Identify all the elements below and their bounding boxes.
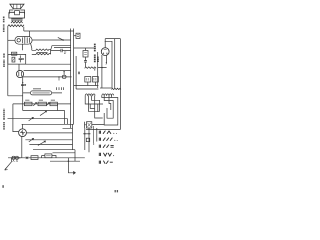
- vertical bus pair: [71, 29, 74, 129]
- wire rung 152.8: [53, 152, 76, 154]
- resistor R1: [32, 49, 51, 51]
- label tube V3 (rotated, dark): [95, 43, 98, 63]
- value text: [64, 52, 66, 53]
- core line: [37, 52, 48, 54]
- inductor L2: [102, 94, 114, 96]
- label V4 (rotated): [3, 109, 5, 130]
- node dot: [68, 160, 70, 162]
- contact mark: [105, 62, 108, 64]
- wire R2 right to cap: [51, 50, 61, 54]
- wire step: [42, 156, 56, 158]
- resistor R9 box: [83, 48, 88, 57]
- resistor R13 box: [50, 102, 57, 106]
- wire row 118.7: [8, 119, 68, 125]
- legend row 2: [99, 138, 117, 141]
- wire T1 left rail down: [8, 27, 23, 96]
- mains plug lead: [5, 158, 12, 170]
- wire V1 top stem: [29, 31, 31, 37]
- switch arrow a: [33, 103, 36, 106]
- arrow head right: [73, 171, 76, 175]
- resistor R8 box: [93, 77, 99, 83]
- wire V4 top stem: [22, 124, 24, 129]
- wire ladder verticals: [73, 124, 76, 161]
- tube V2: [16, 70, 23, 77]
- wire V2 cathode down: [22, 77, 24, 111]
- wire row 110 with switch: [23, 111, 65, 125]
- wire V4 bottom stem: [21, 136, 23, 157]
- wire maze nested loops: [85, 95, 118, 125]
- wire row 149.7: [33, 149, 75, 151]
- legend row 5: [99, 161, 113, 164]
- resistor R16 box: [45, 154, 52, 158]
- node dots: [84, 133, 86, 135]
- wire right top feed: [74, 47, 96, 49]
- resistor R11 box: [24, 102, 32, 106]
- node dot: [19, 157, 20, 158]
- wire long mid bus 1: [8, 63, 71, 65]
- resistor R3 box: [74, 33, 80, 38]
- page mark bottom-left: [2, 185, 4, 188]
- wire row 139.8 with arrow: [25, 139, 72, 141]
- wire rung 128.3: [63, 127, 73, 129]
- wire V1 left to rail: [8, 39, 15, 41]
- capacitor C8 small box: [86, 138, 89, 141]
- resistor R7 box: [85, 77, 91, 83]
- wire long line 124.3: [22, 123, 74, 125]
- capacitor C2: [19, 55, 22, 62]
- resistor R10: [112, 88, 121, 89]
- wire V4 right lead: [26, 132, 72, 134]
- wire row 161.2: [50, 160, 80, 162]
- wire row 144.4 with switch S4: [29, 143, 72, 145]
- legend row 3: [99, 145, 113, 148]
- tube V4: [19, 129, 27, 137]
- wire V3 loop: [105, 39, 120, 130]
- wire V1 lower lead: [31, 44, 32, 51]
- node junction: [62, 39, 64, 41]
- resistor R15 box: [31, 156, 38, 160]
- wire block links: [74, 56, 99, 89]
- resistor R6: [85, 66, 97, 71]
- switch S3 arrow: [29, 117, 34, 121]
- wire R1 right up: [51, 46, 71, 51]
- wire link: [83, 133, 90, 135]
- capacitor C1: [61, 49, 71, 52]
- legend row 1: [99, 131, 117, 134]
- wire h 88: [100, 87, 112, 89]
- coupling block frame: [8, 52, 26, 64]
- tube V3: [101, 48, 109, 56]
- inductor L1: [85, 94, 95, 96]
- label tube V1 (rotated text): [3, 16, 5, 32]
- value text: [78, 72, 80, 75]
- speaker SP1: [10, 4, 25, 15]
- wire maze bottoms: [86, 125, 120, 130]
- wire to output arrow: [68, 158, 73, 173]
- pilot lamp HL1: [12, 156, 15, 159]
- wire top bus y31: [24, 30, 74, 32]
- capacitor C4 series: [21, 82, 26, 86]
- fuse X: [26, 157, 28, 159]
- wire V2 anode lead: [23, 76, 72, 78]
- resistor R5: [12, 57, 15, 62]
- lamp legs: [13, 160, 18, 162]
- capacitor C5 cluster: [85, 122, 92, 132]
- resistor R12 box: [38, 102, 46, 106]
- plug arrow: [5, 168, 8, 170]
- legend row 4: [99, 153, 114, 156]
- wire T1 right lead: [23, 27, 25, 31]
- capacitor C7: [84, 57, 87, 66]
- capacitor C3 trimmer: [58, 71, 66, 78]
- wire box row drop: [56, 104, 58, 111]
- switch S1 blade: [58, 37, 63, 40]
- page mark bottom-right: [115, 190, 117, 192]
- switch arrow b: [46, 103, 49, 106]
- switch S2: [40, 111, 47, 116]
- wire V1 anode bus: [32, 39, 71, 41]
- resistor R2: [32, 53, 51, 55]
- output transformer T1: [8, 12, 25, 26]
- wire V3 cathode drops: [102, 55, 107, 88]
- label V2 (rotated): [3, 53, 5, 67]
- wire legend-left verticals: [85, 128, 97, 152]
- wire V1 cathode: [21, 44, 23, 50]
- wire lamp row: [8, 157, 85, 159]
- wire V4 left feed: [13, 104, 19, 132]
- dashes cluster: [57, 87, 64, 90]
- tube V1: [15, 36, 32, 44]
- value marks: [25, 99, 29, 101]
- pilot lamp HL2: [15, 156, 18, 159]
- wire stair row 104: [13, 103, 71, 105]
- capacitor C6 rounded: [23, 89, 62, 95]
- wire block to V2: [18, 64, 20, 70]
- wire V2 grid lead: [24, 70, 71, 72]
